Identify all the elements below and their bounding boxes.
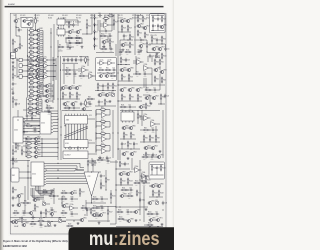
- capacitor C50: [149, 54, 154, 58]
- wire: [78, 70, 82, 72]
- svg-text:R116: R116: [93, 206, 96, 208]
- wire: [97, 72, 115, 74]
- resistor R88: [145, 152, 150, 159]
- wire: [149, 117, 151, 119]
- wire: [159, 66, 161, 70]
- wire: [49, 100, 53, 102]
- svg-text:TR17: TR17: [161, 46, 165, 48]
- svg-text:R31: R31: [28, 58, 31, 60]
- svg-text:TR6: TR6: [71, 29, 74, 31]
- resistor AR16: [28, 92, 35, 99]
- svg-text:Figure 3. Main circuit of th: Figure 3. Main circuit of the Digital De…: [3, 240, 68, 243]
- svg-text:R21b: R21b: [126, 50, 130, 52]
- wire: [77, 20, 79, 26]
- node junction: [155, 141, 156, 142]
- wire: [40, 95, 43, 97]
- node junction: [73, 220, 74, 221]
- transistor TR39: [120, 87, 127, 91]
- wire: [31, 125, 40, 127]
- wire: [149, 140, 151, 143]
- svg-text:IC24a: IC24a: [135, 166, 139, 168]
- svg-text:R90: R90: [24, 201, 27, 203]
- wire: [148, 147, 152, 149]
- svg-text:R118: R118: [14, 100, 17, 102]
- diode D13: [139, 198, 144, 203]
- wire: [17, 110, 19, 117]
- svg-text:IC10b: IC10b: [89, 72, 93, 74]
- svg-text:C8: C8: [139, 37, 141, 39]
- wire: [46, 203, 50, 205]
- capacitor C26: [121, 142, 126, 146]
- resistor R62: [154, 76, 159, 83]
- svg-text:R26: R26: [148, 45, 151, 47]
- svg-text:4116: 4116: [66, 119, 70, 121]
- resistor R78: [100, 131, 107, 137]
- wire bus line: [53, 113, 58, 115]
- svg-text:TR25: TR25: [48, 98, 52, 100]
- svg-text:R6: R6: [21, 46, 23, 48]
- wire: [39, 103, 42, 105]
- svg-text:R9: R9: [59, 45, 61, 47]
- node junction: [62, 98, 63, 99]
- wire: [65, 225, 68, 227]
- capacitor C15: [88, 101, 92, 107]
- resistor AR9: [28, 62, 35, 69]
- wire: [40, 60, 43, 62]
- svg-text:TR9: TR9: [123, 18, 126, 20]
- node junction: [120, 184, 121, 185]
- svg-text:IC15: IC15: [89, 115, 92, 117]
- wire: [62, 69, 65, 71]
- wire: [34, 95, 36, 97]
- wire: [109, 94, 112, 96]
- transistor TR41: [136, 87, 143, 91]
- wire: [62, 56, 78, 58]
- svg-text:TR58: TR58: [17, 219, 21, 221]
- wire: [104, 198, 108, 200]
- transistor TR37: [154, 67, 161, 71]
- wire rail: [96, 206, 116, 208]
- svg-text:TR79: TR79: [73, 190, 77, 192]
- wire: [34, 51, 36, 53]
- resistor R86: [149, 135, 154, 142]
- node: [91, 202, 92, 203]
- node junction: [60, 89, 61, 90]
- transistor ATR3: [36, 36, 43, 41]
- wire: [121, 146, 123, 149]
- wire: [74, 213, 78, 215]
- diode D7: [157, 24, 161, 29]
- wire: [99, 20, 101, 49]
- svg-text:C15: C15: [88, 101, 91, 103]
- wire: [96, 137, 101, 139]
- wire: [152, 195, 154, 198]
- transistor TR65: [157, 183, 164, 187]
- node junction: [91, 171, 92, 172]
- wire: [25, 120, 38, 122]
- wire: [101, 30, 104, 32]
- wire: [137, 119, 139, 124]
- node junction: [90, 75, 91, 76]
- resistor R95: [92, 160, 97, 167]
- wire: [49, 95, 53, 97]
- resistor R52: [97, 83, 102, 90]
- svg-text:R53: R53: [109, 86, 112, 88]
- wire: [147, 56, 149, 62]
- capacitor C40: [129, 187, 133, 193]
- svg-text:E&MM: E&MM: [8, 4, 15, 6]
- node junction: [16, 59, 17, 60]
- wire: [147, 52, 160, 54]
- node junction: [60, 134, 61, 135]
- svg-text:TR56: TR56: [20, 202, 24, 204]
- node junction: [102, 90, 103, 91]
- wire: [124, 69, 128, 71]
- svg-text:4040: 4040: [14, 130, 18, 132]
- wire: [121, 99, 123, 102]
- svg-text:R94: R94: [89, 163, 92, 165]
- wire: [140, 48, 142, 50]
- node junction: [60, 69, 61, 70]
- wire: [12, 145, 14, 149]
- svg-text:IC9b: IC9b: [44, 62, 47, 64]
- svg-text:R17: R17: [115, 22, 118, 24]
- diode D4: [94, 37, 98, 42]
- B base bus wire: [26, 98, 28, 115]
- svg-text:TR73: TR73: [102, 212, 106, 214]
- wire: [23, 145, 27, 147]
- svg-text:BR3: BR3: [29, 106, 32, 108]
- svg-text:TR35: TR35: [123, 67, 127, 69]
- wire: [17, 59, 19, 61]
- svg-text:R78: R78: [101, 131, 104, 133]
- svg-text:IC10a: IC10a: [82, 66, 86, 68]
- wire: [39, 107, 42, 109]
- transistor TR62: [119, 171, 126, 175]
- wire: [105, 170, 107, 177]
- wire: [96, 149, 101, 151]
- node junction: [65, 37, 66, 38]
- wire: [34, 38, 36, 40]
- node junction: [112, 132, 113, 133]
- wire: [34, 64, 36, 66]
- resistor R110: [118, 217, 125, 223]
- svg-text:R12: R12: [76, 36, 79, 38]
- resistor R89: [12, 187, 17, 194]
- wire: [123, 219, 127, 221]
- capacitor C33: [70, 211, 74, 217]
- transistor TR72: [92, 212, 99, 216]
- svg-text:100n: 100n: [71, 201, 74, 203]
- svg-text:TR72: TR72: [95, 212, 99, 214]
- svg-text:C22: C22: [167, 96, 170, 98]
- node junction: [81, 42, 82, 43]
- resistor AR11: [28, 71, 35, 78]
- wire: [117, 55, 119, 110]
- wire: [40, 38, 43, 40]
- transistor BTR1: [35, 97, 42, 101]
- node junction: [120, 64, 121, 65]
- wire input node: [96, 146, 101, 150]
- svg-text:C28: C28: [155, 155, 158, 157]
- resistor R93: [30, 222, 37, 228]
- svg-text:R77: R77: [101, 119, 104, 121]
- node junction: [125, 64, 126, 65]
- node: [57, 195, 58, 196]
- page spine shadow: [0, 0, 5, 250]
- svg-text:TR18: TR18: [38, 57, 42, 59]
- wire: [40, 30, 43, 32]
- ground: [68, 107, 71, 110]
- transistor TR26: [61, 85, 68, 89]
- wire: [107, 36, 109, 42]
- svg-text:R67: R67: [146, 88, 149, 90]
- wire: [133, 146, 135, 149]
- wire: [141, 26, 144, 28]
- svg-text:TR28: TR28: [78, 85, 82, 87]
- svg-text:R126: R126: [92, 211, 96, 213]
- resistor R45: [69, 92, 74, 99]
- wire: [147, 175, 151, 177]
- capacitor C14: [80, 102, 85, 106]
- svg-text:IC24b: IC24b: [142, 172, 146, 174]
- svg-text:TR78: TR78: [85, 106, 89, 108]
- svg-text:C30: C30: [50, 207, 53, 209]
- capacitor C8b: [137, 49, 141, 55]
- node junction: [139, 116, 140, 117]
- transistor TR49: [122, 125, 129, 129]
- svg-text:C32: C32: [103, 176, 106, 178]
- capacitor C30b: [50, 189, 54, 195]
- node junction: [57, 56, 58, 57]
- control box: [11, 168, 19, 182]
- node junction: [107, 72, 108, 73]
- IC IC15 (RAM 4116): [65, 114, 88, 126]
- transistor ATR11: [36, 70, 44, 75]
- svg-text:IC5 4016: IC5 4016: [76, 15, 82, 17]
- wire: [69, 97, 71, 100]
- capacitor C23: [12, 157, 17, 161]
- node: [115, 206, 116, 207]
- resistor R43: [65, 72, 72, 78]
- resistor R5: [12, 39, 16, 46]
- capacitor C43: [15, 102, 20, 106]
- node junction: [146, 51, 147, 52]
- wire: [125, 106, 128, 108]
- svg-text:C6: C6: [104, 28, 106, 30]
- wire: [12, 79, 14, 80]
- svg-text:TR69: TR69: [123, 193, 127, 195]
- transistor TR44: [34, 136, 41, 140]
- resistor R103: [127, 178, 133, 185]
- capacitor C4: [72, 23, 77, 27]
- op-amp IC12a: [137, 58, 142, 65]
- wire: [146, 182, 150, 184]
- VCO box: [96, 58, 117, 81]
- capacitor C39: [126, 209, 130, 215]
- node junction: [42, 76, 43, 77]
- svg-text:TR16: TR16: [155, 46, 159, 48]
- resistor R121: [120, 105, 127, 111]
- transistor TR67: [134, 209, 141, 213]
- resistor R53: [107, 83, 112, 90]
- resistor AR12: [28, 75, 35, 82]
- resistor R7: [12, 65, 16, 72]
- wire: [97, 207, 100, 209]
- resistor R112: [127, 194, 134, 200]
- svg-text:R96: R96: [102, 186, 105, 188]
- wire: [144, 224, 147, 226]
- svg-text:R48: R48: [88, 97, 91, 99]
- node junction: [55, 65, 56, 66]
- resistor R50: [105, 68, 112, 74]
- node: [57, 169, 58, 170]
- transistor TR2: [22, 18, 28, 22]
- node: [27, 171, 28, 172]
- ground: [135, 219, 138, 222]
- svg-text:100n: 100n: [113, 72, 116, 74]
- transistor TR78: [82, 106, 89, 110]
- wire long bottom rail: [11, 221, 67, 223]
- wire bundle line: [37, 186, 52, 192]
- wire: [12, 45, 14, 52]
- node junction: [105, 189, 106, 190]
- node junction: [85, 62, 86, 63]
- wire: [133, 60, 137, 62]
- wire: [125, 44, 130, 46]
- node junction: [76, 98, 77, 99]
- svg-text:R120: R120: [163, 56, 167, 58]
- wire: [104, 104, 106, 107]
- transistor ATR9: [36, 62, 43, 67]
- svg-text:100n: 100n: [144, 76, 147, 78]
- wire: [22, 76, 27, 78]
- transistor TR1: [14, 18, 20, 22]
- wire: [119, 40, 121, 56]
- svg-text:IC12 4040: IC12 4040: [66, 25, 72, 27]
- right page edge: [171, 0, 174, 250]
- wire: [16, 27, 19, 29]
- wire: [51, 107, 54, 109]
- wire: [129, 99, 131, 102]
- wire bundle line: [34, 188, 44, 199]
- wire: [156, 123, 161, 125]
- wire: [12, 165, 14, 168]
- svg-text:100n: 100n: [23, 215, 26, 217]
- svg-text:R65: R65: [131, 97, 134, 99]
- op-amp IC9c: [44, 67, 48, 73]
- diode D5: [94, 44, 98, 49]
- resistor R125: [110, 193, 116, 200]
- capacitor C11: [164, 47, 169, 51]
- svg-text:RV4: RV4: [155, 200, 158, 202]
- wire DAC bus route: [58, 163, 84, 167]
- wire: [34, 30, 36, 32]
- wire: [115, 44, 117, 56]
- wire section connector: [44, 110, 58, 112]
- wire IC13-IC14 bus line: [25, 134, 40, 136]
- svg-text:C25: C25: [109, 158, 112, 160]
- wire: [140, 175, 148, 177]
- svg-text:R13: R13: [76, 41, 79, 43]
- resistor R138: [12, 159, 18, 166]
- node junction: [59, 217, 60, 218]
- node junction: [52, 95, 53, 96]
- wire: [118, 80, 133, 82]
- wire: [12, 103, 14, 108]
- node junction: [35, 29, 36, 30]
- svg-text:D12: D12: [135, 143, 138, 145]
- transistor TR56: [17, 202, 24, 206]
- resistor R6: [19, 43, 23, 50]
- svg-text:R43: R43: [66, 72, 69, 74]
- wire: [143, 140, 145, 143]
- capacitor C13: [73, 71, 77, 77]
- wire: [131, 158, 133, 168]
- transistor TR59: [22, 222, 29, 226]
- node: [12, 91, 13, 92]
- transistor TR6: [68, 29, 74, 33]
- node: [117, 84, 118, 85]
- wire: [35, 14, 37, 18]
- wire: [99, 171, 102, 173]
- ground: [54, 224, 57, 227]
- svg-text:R28: R28: [163, 19, 166, 21]
- resistor AR2: [28, 31, 35, 38]
- wire: [40, 64, 43, 66]
- svg-text:C26: C26: [124, 144, 127, 146]
- transistor ATR5: [36, 44, 43, 49]
- capacitor C27: [151, 127, 155, 133]
- svg-text:R20: R20: [131, 37, 134, 39]
- wire: [110, 199, 112, 203]
- resistor R18: [121, 25, 126, 32]
- svg-text:100n: 100n: [71, 216, 74, 218]
- wire: [143, 78, 145, 88]
- wire: [39, 76, 44, 78]
- capacitor C2: [12, 56, 17, 60]
- capacitor C61: [98, 13, 102, 19]
- transistor TR13: [143, 25, 150, 29]
- transistor TR51: [122, 151, 129, 155]
- wire DAC bus route: [58, 178, 86, 180]
- transistor TR60: [62, 203, 69, 207]
- svg-text:D6: D6: [154, 25, 156, 27]
- node junction: [57, 147, 58, 148]
- resistor R40: [85, 57, 90, 64]
- wire: [18, 198, 20, 204]
- svg-text:TR63: TR63: [129, 171, 133, 173]
- wire: [85, 98, 87, 101]
- transistor TR38: [160, 69, 167, 73]
- IC IC16 (RAM 4116): [64, 140, 88, 150]
- node: [86, 19, 87, 20]
- svg-text:C11: C11: [167, 49, 170, 51]
- node junction: [27, 55, 28, 56]
- transistor TR79: [70, 190, 77, 194]
- resistor AR4: [28, 40, 35, 47]
- resistor R135: [145, 177, 151, 184]
- wire: [66, 192, 70, 194]
- wire: [113, 14, 115, 19]
- wire: [123, 38, 125, 40]
- resistor R91: [34, 204, 39, 211]
- svg-text:100n: 100n: [154, 92, 157, 94]
- wire bus line: [42, 147, 58, 149]
- transistor TR18: [35, 57, 42, 61]
- svg-text:IC10: IC10: [146, 15, 149, 17]
- svg-text:R61: R61: [161, 62, 164, 64]
